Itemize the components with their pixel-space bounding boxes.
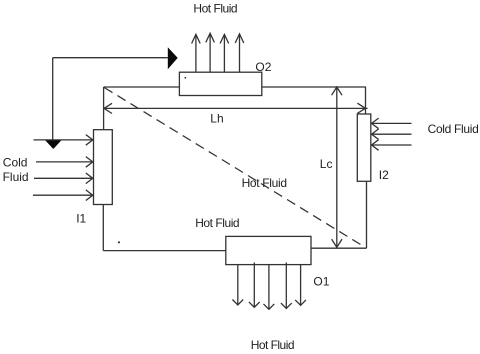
dimension line Lc with arrows both ends [332, 87, 342, 247]
wire: main loop top (behind O2 box) [104, 86, 366, 88]
svg-text:Lh: Lh [210, 112, 223, 126]
wire: main loop right upper segment into I2 [365, 87, 367, 114]
stray dot inside O2 box [184, 77, 186, 79]
svg-text:O2: O2 [255, 60, 271, 74]
dashed diagonal Hot Fluid path [104, 88, 364, 247]
hot fluid outlet arrow down 3 [264, 265, 275, 310]
hot fluid outlet arrow down 1 [232, 265, 243, 305]
hot fluid outlet arrow up 4 [235, 34, 244, 72]
svg-text:Hot Fluid: Hot Fluid [193, 2, 237, 16]
wire: feedback horizontal from node above I1 to block arrow [53, 57, 168, 59]
svg-text:Lc: Lc [320, 157, 333, 171]
cold fluid inlet arrow right 3 [372, 140, 412, 151]
heat exchanger box O2 (top) [179, 72, 261, 95]
cold fluid inlet arrow right 1 [372, 118, 412, 129]
wire: main loop bottom-left segment to O1 box [103, 250, 226, 252]
svg-text:O1: O1 [313, 275, 329, 289]
svg-text:Hot Fluid: Hot Fluid [251, 338, 295, 352]
hot fluid outlet arrow up 3 [220, 34, 229, 71]
svg-text:Fluid: Fluid [3, 170, 29, 184]
wire: main loop left upper segment [103, 87, 105, 130]
solid block arrow pointing right into O2 area [168, 47, 178, 69]
wire: feedback vertical down-left [52, 58, 54, 140]
heat exchanger box I2 (right) [357, 114, 371, 181]
cold fluid inlet arrow left 2 [36, 157, 93, 168]
wire: main loop left lower segment [102, 205, 104, 251]
hot fluid outlet arrow up 2 [206, 33, 215, 72]
cold fluid inlet arrow left 3 [34, 173, 93, 184]
wire: main loop right lower segment [366, 181, 368, 248]
cold fluid inlet arrow left 1 [34, 135, 93, 146]
svg-text:I1: I1 [76, 212, 86, 226]
dimension line Lh with arrows both ends [104, 103, 368, 113]
cold fluid inlet arrow left 4 [33, 190, 93, 201]
svg-text:Cold: Cold [3, 155, 28, 169]
hot fluid outlet arrow down 4 [281, 263, 292, 309]
heat exchanger box O1 (bottom) [226, 236, 311, 264]
svg-text:Hot Fluid: Hot Fluid [242, 176, 287, 190]
solid arrowhead pointing down at cold-fluid inlet line [45, 140, 61, 149]
stray dot near bottom-left wire [118, 241, 120, 243]
heat exchanger box I1 (left) [94, 130, 113, 205]
wire: main loop bottom-right segment from O1 box [311, 247, 367, 249]
svg-text:Cold Fluid: Cold Fluid [428, 122, 479, 136]
hot fluid outlet arrow down 5 [295, 265, 306, 306]
cold fluid inlet arrow right 2 [372, 129, 412, 140]
hot fluid outlet arrow up 1 [192, 34, 201, 71]
svg-text:I2: I2 [379, 168, 389, 182]
svg-text:Hot Fluid: Hot Fluid [195, 216, 239, 230]
hot fluid outlet arrow down 2 [249, 263, 260, 308]
